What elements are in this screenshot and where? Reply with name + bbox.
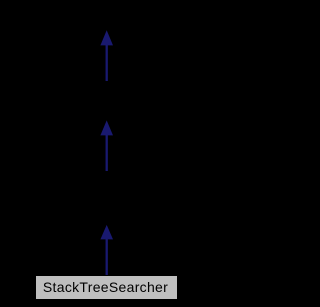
wire: inheritance arrow to top base class [100,30,113,81]
wire arrows [0,0,213,307]
wire: inheritance arrow, middle [100,120,113,171]
node StackTreeSearcher [35,275,178,300]
wire: inheritance arrow, lower [100,225,113,278]
